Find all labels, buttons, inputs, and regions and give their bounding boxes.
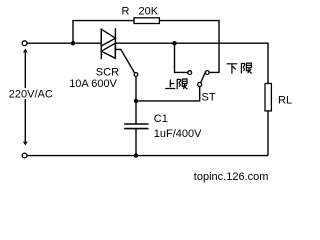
- arrow 220V/AC double-headed: [23, 49, 28, 146]
- triac SCR bottom triangle: [101, 43, 115, 58]
- capacitor C1 bottom plate: [124, 128, 148, 130]
- junction dot node B (upper-limit tap): [172, 41, 176, 45]
- wire upper-limit branch: [175, 43, 188, 72]
- switch ST lever: [201, 72, 206, 83]
- contact lower-limit circle: [205, 71, 209, 75]
- terminal bottom AC input: [22, 153, 27, 158]
- wire bottom rail: [27, 155, 268, 157]
- wire right rail upper: [267, 43, 269, 84]
- triac SCR left bar: [100, 29, 102, 60]
- terminal top AC input: [22, 41, 27, 46]
- svg-text:topinc.126.com: topinc.126.com: [194, 171, 269, 183]
- capacitor C1 bottom lead: [135, 129, 137, 156]
- svg-text:RL: RL: [278, 94, 292, 106]
- triac SCR top triangle: [101, 29, 115, 46]
- svg-text:10A 600V: 10A 600V: [69, 78, 117, 90]
- wire right rail lower: [267, 111, 269, 156]
- label 220V/AC: [8, 88, 57, 99]
- wire gate vertical: [135, 77, 137, 101]
- junction dot node A (R branch tap): [71, 41, 75, 45]
- wire R branch right: [159, 21, 219, 73]
- contact upper-limit circle: [188, 71, 192, 75]
- resistor R: [134, 18, 159, 24]
- label upper-limit (shang xian) CJK drawn glyphs: [165, 79, 187, 89]
- wire R branch up: [73, 21, 134, 44]
- svg-text:C1: C1: [154, 113, 168, 125]
- label lower-limit (xia xian) CJK drawn glyphs: [227, 63, 252, 74]
- capacitor C1 top lead: [135, 101, 137, 124]
- svg-text:SCR: SCR: [96, 66, 119, 78]
- switch ST pivot circle: [198, 83, 202, 87]
- svg-text:ST: ST: [202, 92, 216, 104]
- wire switch pole down-left: [136, 87, 200, 101]
- wire top rail: [27, 42, 101, 44]
- junction dot node C (C1 to bottom rail): [134, 153, 138, 157]
- capacitor C1 top plate: [124, 123, 148, 125]
- wire gate diagonal: [115, 49, 134, 73]
- junction dot node G (gate net): [134, 99, 138, 103]
- wire top rail right of SCR: [115, 42, 268, 44]
- svg-text:1uF/400V: 1uF/400V: [154, 128, 202, 140]
- svg-text:20K: 20K: [139, 5, 159, 17]
- resistor RL: [265, 84, 271, 111]
- svg-text:220V/AC: 220V/AC: [9, 88, 53, 100]
- triac SCR right bar: [114, 28, 116, 58]
- gate pin circle: [134, 73, 138, 77]
- svg-text:R: R: [122, 5, 130, 17]
